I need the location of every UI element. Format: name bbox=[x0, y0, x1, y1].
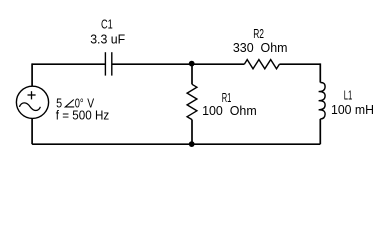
svg-text:C1: C1 bbox=[101, 16, 113, 31]
svg-text:L1: L1 bbox=[344, 87, 353, 102]
svg-text:100 mH: 100 mH bbox=[331, 102, 374, 117]
svg-text:f = 500 Hz: f = 500 Hz bbox=[56, 108, 109, 123]
svg-text:R2: R2 bbox=[253, 26, 264, 41]
svg-text:330 Ohm: 330 Ohm bbox=[233, 40, 288, 55]
svg-text:100 Ohm: 100 Ohm bbox=[202, 103, 257, 118]
svg-text:3.3 uF: 3.3 uF bbox=[90, 32, 125, 47]
